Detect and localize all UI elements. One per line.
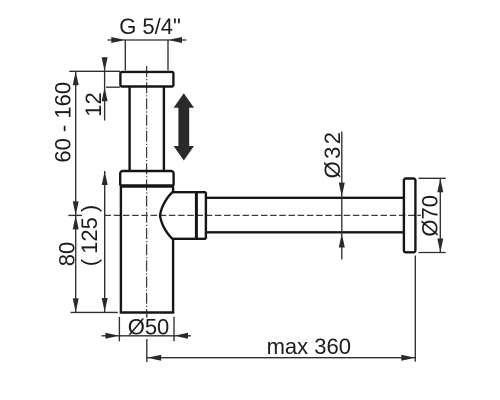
O70 dim line: [439, 178, 441, 252]
outlet bell: [160, 192, 206, 239]
svg-text:12: 12: [81, 92, 106, 116]
body top rim: [120, 171, 173, 187]
(125) bottom arrow: [102, 298, 108, 312]
O70 bottom arrow: [437, 239, 443, 253]
body left wall: [120, 187, 122, 313]
O32 bottom arrow: [339, 234, 345, 248]
centerline stub below body: [146, 314, 148, 318]
O70 bottom extension: [419, 252, 446, 254]
dimension O50 left extension: [118, 317, 120, 342]
O70 top extension: [419, 177, 446, 179]
max 360 right extension: [414, 256, 416, 362]
G 5/4 left extension: [124, 40, 126, 70]
body right wall upper: [172, 187, 174, 193]
adjustment double arrow: [174, 93, 194, 160]
svg-text:80: 80: [54, 242, 79, 266]
12 upper arrow: [102, 57, 108, 71]
body right wall lower: [172, 239, 174, 313]
G 5/4 left arrow: [111, 37, 125, 43]
60-160 top arrow: [73, 71, 79, 85]
svg-text:Ø32: Ø32: [320, 130, 345, 179]
svg-text:60 - 160: 60 - 160: [51, 82, 76, 163]
max 360 connector: [146, 339, 148, 362]
body bottom: [120, 311, 175, 313]
vertical centerline of body: [146, 66, 148, 314]
svg-text:Ø70: Ø70: [418, 195, 443, 237]
O50 right arrow: [174, 333, 188, 339]
max 360 dim line: [147, 357, 416, 359]
60-160 bottom arrow: [73, 201, 79, 215]
svg-text:Ø50: Ø50: [128, 314, 170, 339]
top flange: [120, 72, 173, 87]
svg-text:G 5/4": G 5/4": [119, 14, 181, 39]
collar thick line: [195, 192, 198, 239]
outlet pipe top: [206, 197, 404, 199]
inlet pipe left wall: [128, 87, 130, 171]
(125) top arrow: [102, 171, 108, 185]
horizontal centerline of outlet pipe: [105, 214, 422, 216]
G 5/4 right extension: [167, 40, 169, 70]
dimension 60-160 line: [75, 71, 77, 215]
outlet pipe bottom: [206, 231, 404, 233]
inlet pipe right wall: [163, 87, 165, 171]
O50 dim line: [102, 335, 192, 337]
flange top extension line: [69, 70, 120, 72]
O32 top arrow: [339, 183, 345, 197]
collar right edge: [205, 192, 207, 239]
wall flange: [404, 179, 416, 253]
dimension 80 line: [75, 215, 77, 312]
body bottom extension line: [71, 311, 118, 313]
dimension O32 line: [341, 132, 343, 260]
centerline tick: [68, 214, 82, 216]
80 bottom arrow: [73, 298, 79, 312]
max 360 left arrow: [147, 355, 161, 361]
max 360 right arrow: [401, 355, 415, 361]
O50 right extension: [173, 317, 175, 342]
rim bottom thick line: [120, 184, 173, 187]
G 5/4 right arrow: [168, 37, 182, 43]
dimension G 5/4 line: [108, 39, 187, 41]
O70 top arrow: [437, 178, 443, 192]
dimension (125) line: [104, 171, 106, 312]
O50 left arrow: [105, 333, 119, 339]
svg-text:max 360: max 360: [267, 334, 351, 359]
12 lower arrow: [102, 87, 108, 101]
80 top arrow: [73, 215, 79, 229]
dimension 12 line: [104, 57, 106, 120]
flange bottom extension line: [106, 86, 120, 88]
